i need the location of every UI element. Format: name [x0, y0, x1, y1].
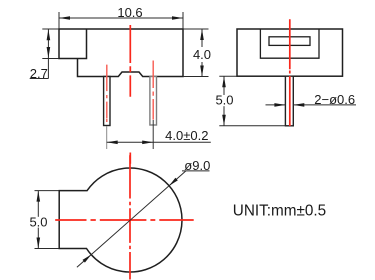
side view step detail	[260, 29, 319, 58]
lead 1 (front view left pin)	[104, 77, 110, 126]
dimension 2.7	[30, 29, 59, 79]
extension line below lead 2	[152, 120, 154, 149]
svg-text:5.0: 5.0	[215, 93, 233, 108]
side view body outline	[237, 29, 343, 76]
centerline lead 2	[152, 61, 154, 120]
svg-text:UNIT:mm±0.5: UNIT:mm±0.5	[233, 203, 326, 220]
lead 2 (front view right pin)	[150, 77, 157, 126]
centerline bottom view horizontal	[55, 219, 194, 221]
side view slot	[269, 37, 310, 46]
dimension 10.6	[59, 12, 183, 29]
lead (side view pin)	[285, 76, 293, 126]
centerline side view vertical	[289, 19, 291, 126]
centerline bottom view vertical	[129, 155, 131, 279]
svg-text:10.6: 10.6	[117, 5, 142, 20]
centerline lead 1	[106, 65, 108, 122]
dimension 2-ø0.6 (lead diameter)	[266, 104, 286, 106]
extension line below lead 1	[106, 126, 108, 149]
svg-text:2−ø0.6: 2−ø0.6	[314, 92, 355, 107]
svg-text:5.0: 5.0	[29, 214, 47, 229]
bottom view outline (circle with flat tab)	[59, 168, 182, 272]
svg-text:ø9.0: ø9.0	[184, 158, 210, 173]
dimension 5.0 (lead length)	[219, 76, 287, 126]
svg-text:4.0±0.2: 4.0±0.2	[165, 128, 208, 143]
dimension 4.0±0.2 (lead spacing)	[107, 141, 211, 143]
dimension 4.0 (front view height)	[183, 29, 209, 77]
dimension ø9.0 leader	[77, 171, 186, 267]
dimension 5.0 (tab width, bottom view)	[35, 191, 60, 249]
front view body outline	[59, 29, 183, 77]
centerline front view vertical	[129, 25, 131, 164]
svg-text:2.7: 2.7	[30, 66, 48, 81]
svg-text:4.0: 4.0	[193, 47, 211, 62]
